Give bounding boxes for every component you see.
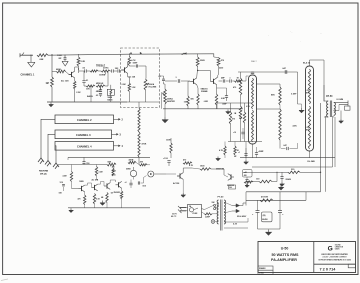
resistor R12	[95, 165, 103, 181]
svg-text:AC 128: AC 128	[61, 79, 69, 82]
resistor R27	[192, 166, 211, 171]
svg-text:BASS: BASS	[87, 95, 93, 98]
ground	[69, 208, 73, 212]
svg-text:100KB: 100KB	[99, 75, 106, 77]
wire	[159, 76, 165, 89]
svg-text:AC 1KB: AC 1KB	[92, 179, 99, 182]
svg-text:100K: 100K	[166, 140, 171, 142]
wire	[202, 208, 205, 211]
wire	[138, 102, 140, 165]
capacitor C12	[122, 181, 146, 187]
svg-text:150: 150	[184, 101, 187, 103]
drawn box	[258, 266, 273, 270]
wire	[228, 141, 262, 143]
svg-text:G: G	[328, 245, 333, 252]
wire	[128, 66, 130, 84]
wire	[217, 203, 219, 207]
svg-text:6.8K2: 6.8K2	[204, 101, 208, 103]
label 2N3055	[227, 185, 235, 187]
svg-text:10KB: 10KB	[79, 181, 84, 183]
svg-text:2N3053: 2N3053	[114, 192, 121, 194]
wire	[240, 203, 247, 206]
resistor R18	[124, 158, 136, 163]
wire	[197, 67, 198, 78]
wire	[128, 52, 142, 66]
pilot lamp DS1	[211, 220, 218, 224]
svg-text:WAL?: WAL?	[251, 60, 257, 63]
resistor R22	[184, 96, 190, 109]
potentiometer VR4 volume	[144, 79, 157, 90]
svg-text:U-50: U-50	[281, 247, 289, 251]
resistor R29	[229, 103, 235, 142]
ground	[278, 185, 283, 190]
resistor R31	[219, 142, 226, 159]
svg-text:680K: 680K	[56, 69, 61, 71]
svg-text:10MF: 10MF	[133, 63, 139, 65]
block CHANNEL 4	[55, 142, 114, 151]
svg-text:(M): (M)	[263, 215, 266, 217]
label grid2	[306, 127, 310, 132]
svg-text:470: 470	[112, 166, 115, 169]
wire	[257, 84, 281, 109]
wire	[217, 102, 252, 104]
svg-text:2.2M: 2.2M	[122, 84, 126, 86]
resistor R23	[204, 88, 226, 109]
svg-text:DRAWN: DRAWN	[259, 267, 266, 270]
wire	[310, 60, 325, 85]
logo G	[328, 244, 344, 252]
svg-text:+50MF: +50MF	[258, 151, 265, 153]
svg-text:+2: +2	[125, 182, 127, 184]
ground	[244, 160, 248, 164]
wire	[98, 182, 104, 187]
svg-text:MIDDLE: MIDDLE	[96, 83, 104, 85]
wire	[309, 63, 311, 66]
wire	[55, 146, 56, 163]
transformer T1 primary	[327, 101, 329, 117]
wire	[186, 208, 188, 211]
diode D2	[224, 209, 240, 213]
transistor Q8	[210, 78, 216, 85]
resistor R40	[234, 95, 242, 142]
svg-text:47KB: 47KB	[129, 158, 134, 161]
label PA AMPLIFIER	[271, 258, 297, 262]
resistor R43	[140, 161, 148, 166]
svg-text:680: 680	[191, 99, 194, 101]
svg-text:4756: 4756	[112, 174, 116, 177]
wire	[164, 104, 166, 117]
potentiometer VR3	[107, 89, 114, 101]
wire	[243, 76, 249, 81]
label 6BB	[216, 169, 224, 171]
resistor R6	[90, 70, 101, 72]
wire	[83, 71, 85, 80]
wire	[205, 205, 219, 209]
resistor R33	[271, 84, 281, 105]
svg-text:50KB: 50KB	[126, 168, 131, 170]
wire	[90, 86, 92, 92]
wire	[243, 172, 321, 173]
capacitor C6	[115, 68, 120, 73]
svg-text:4.6M: 4.6M	[63, 175, 67, 178]
resistor R35	[288, 169, 300, 174]
label 63	[233, 224, 238, 226]
capacitor C29	[59, 182, 65, 195]
resistor R1	[37, 54, 48, 61]
potentiometer VR5	[126, 167, 137, 177]
wire	[163, 108, 243, 110]
node 2	[114, 118, 124, 121]
wire heater	[252, 116, 335, 167]
ground	[100, 201, 105, 206]
svg-text:450: 450	[244, 174, 247, 177]
transformer T2 secondary	[224, 200, 226, 224]
svg-text:+1/10: +1/10	[163, 158, 168, 160]
label SE4010	[201, 87, 209, 93]
svg-text:68K: 68K	[108, 161, 112, 163]
ground	[280, 182, 284, 186]
svg-text:7 2 0 714: 7 2 0 714	[320, 267, 337, 271]
svg-text:10K: 10K	[86, 89, 90, 91]
svg-text:(10TK): (10TK)	[103, 67, 109, 69]
title block frame	[258, 242, 356, 273]
wire	[183, 168, 192, 173]
boxed label 80/450	[262, 212, 273, 222]
wire	[249, 172, 278, 182]
wire	[58, 164, 107, 166]
dashed enclosure	[121, 48, 160, 108]
wire	[91, 85, 111, 102]
wire	[258, 228, 281, 230]
plug P1	[171, 206, 186, 218]
label 50 WATTS RMS	[272, 253, 300, 257]
svg-text:20/450: 20/450	[286, 178, 292, 181]
revision box	[348, 264, 355, 268]
ground	[181, 193, 185, 197]
label U-50	[281, 247, 289, 251]
resistor R26	[183, 159, 194, 168]
wire	[51, 54, 52, 77]
svg-text:+1: +1	[238, 152, 240, 154]
wire heater 6.3V	[224, 218, 248, 228]
svg-text:MF: MF	[234, 156, 236, 158]
transistor Q3	[79, 181, 85, 192]
svg-text:.047: .047	[283, 144, 287, 147]
node CHANNEL 1	[21, 74, 36, 77]
transistor Q9	[166, 173, 183, 180]
svg-text:10: 10	[120, 196, 122, 198]
capacitor C28	[229, 77, 235, 82]
svg-text:4.7K: 4.7K	[219, 149, 224, 152]
label grid1	[306, 90, 310, 95]
resistor R41	[191, 94, 200, 109]
wire	[217, 66, 219, 78]
resistor R24	[235, 78, 243, 83]
transistor Q4	[92, 179, 99, 191]
svg-text:470: 470	[233, 86, 236, 89]
svg-text:1M3: 1M3	[115, 68, 119, 70]
wire	[252, 71, 254, 73]
wire feedback	[245, 142, 247, 158]
label address	[318, 259, 351, 261]
label PT-50	[218, 196, 225, 198]
svg-text:68K: 68K	[40, 59, 44, 61]
svg-text:4.7K: 4.7K	[189, 164, 194, 167]
label BASS	[87, 95, 93, 98]
svg-text:50 WATTS RMS: 50 WATTS RMS	[272, 253, 300, 257]
svg-text:470/1W: 470/1W	[261, 196, 268, 199]
capacitor C2	[82, 68, 90, 73]
wire	[309, 151, 311, 158]
label gulf	[323, 256, 348, 259]
wire	[110, 180, 115, 183]
capacitor C20	[251, 72, 254, 73]
svg-text:PA-AMPLIFIER: PA-AMPLIFIER	[271, 258, 297, 262]
ground	[339, 119, 343, 123]
svg-text:2.2M: 2.2M	[99, 172, 103, 174]
potentiometer VR2	[96, 83, 105, 93]
wire	[245, 192, 247, 206]
resistor R9	[128, 83, 136, 92]
node 4	[182, 53, 187, 56]
wire	[216, 103, 218, 109]
svg-text:MASTER: MASTER	[167, 100, 176, 103]
resistor R3	[56, 69, 66, 73]
svg-text:OT-50: OT-50	[326, 96, 333, 98]
node 3	[112, 133, 122, 136]
ground	[216, 157, 220, 161]
capacitor C16	[163, 158, 171, 166]
resistor R8	[128, 53, 136, 65]
wire	[48, 134, 55, 160]
wire	[297, 72, 299, 104]
diode D1	[224, 202, 240, 207]
resistor R19	[138, 108, 147, 157]
svg-text:6.3V: 6.3V	[233, 224, 238, 226]
ground	[62, 59, 68, 66]
jack J3	[45, 161, 51, 167]
label SD	[237, 215, 247, 218]
transistor Q10	[228, 174, 234, 181]
resistor R34	[279, 105, 297, 149]
svg-text:470K: 470K	[142, 143, 147, 146]
label 8ohm	[337, 99, 344, 101]
svg-text:5/10: 5/10	[143, 186, 147, 188]
jack J4	[53, 163, 59, 169]
svg-text:SOUND: SOUND	[335, 244, 342, 246]
resistor R36	[256, 179, 272, 183]
svg-text:1M: 1M	[46, 83, 49, 85]
small box	[229, 185, 236, 189]
capacitor C23	[243, 170, 253, 184]
wire	[127, 53, 214, 55]
resistor R5	[74, 78, 82, 102]
speaker jack J6	[334, 101, 350, 111]
jack J2	[38, 158, 44, 164]
potentiometer VR6 master	[162, 89, 176, 104]
capacitor C18	[255, 147, 264, 158]
resistor R2	[46, 77, 54, 87]
label TREBLE	[96, 66, 106, 68]
capacitor C24	[252, 200, 260, 229]
tube V1 phase splitter	[249, 75, 257, 144]
wire	[51, 87, 53, 102]
svg-text:80/450: 80/450	[262, 218, 267, 221]
ground	[162, 117, 168, 123]
checked box	[258, 270, 273, 274]
svg-text:CHANNEL 3: CHANNEL 3	[76, 133, 91, 137]
resistor R13	[63, 165, 73, 189]
wire	[324, 116, 334, 118]
wire	[211, 169, 228, 177]
svg-text:AC128: AC128	[173, 182, 180, 185]
svg-text:CHANNEL 4: CHANNEL 4	[77, 145, 92, 149]
resistor R25	[166, 138, 172, 158]
transistor Q6	[116, 181, 122, 188]
label UNICORD	[321, 253, 348, 256]
capacitor C7	[129, 63, 146, 68]
ground	[299, 108, 304, 113]
svg-text:CHANNEL 1: CHANNEL 1	[21, 74, 36, 77]
svg-text:8 OHM: 8 OHM	[337, 99, 344, 101]
resistor R14	[78, 192, 86, 208]
svg-text:75 FROST STREET, WESTBURY, N.Y: 75 FROST STREET, WESTBURY, N.Y. 11590	[318, 259, 351, 261]
wire	[48, 54, 127, 55]
ground	[245, 184, 249, 188]
wire	[323, 85, 325, 102]
wire	[236, 186, 247, 188]
transformer T1 core	[330, 101, 331, 118]
fuse box F1	[188, 205, 202, 218]
wire	[145, 90, 147, 102]
wire	[250, 141, 252, 144]
svg-text:1/2W: 1/2W	[112, 171, 116, 173]
capacitor C22	[280, 172, 291, 182]
capacitor C9	[82, 157, 89, 164]
wire	[197, 70, 210, 82]
svg-text:6.8K: 6.8K	[221, 98, 226, 100]
wire	[182, 179, 184, 193]
ground	[226, 110, 231, 114]
wire	[324, 85, 328, 101]
block CHANNEL 3	[55, 130, 112, 139]
wire	[145, 66, 148, 79]
transistor Q7	[190, 78, 197, 85]
svg-text:PT-50: PT-50	[218, 196, 225, 198]
capacitor C13	[165, 77, 190, 83]
wire	[52, 72, 69, 75]
svg-text:CHANNEL 2: CHANNEL 2	[77, 118, 92, 122]
capacitor C19	[282, 67, 287, 74]
svg-text:+10: +10	[233, 132, 236, 134]
label MF	[234, 156, 236, 158]
resistor R15	[93, 191, 100, 208]
wire	[72, 188, 79, 190]
ground	[28, 55, 35, 67]
resistor R38 surge	[202, 212, 219, 219]
resistor R10 label	[122, 84, 126, 86]
capacitor C25	[278, 192, 284, 229]
resistor R7	[84, 85, 95, 91]
ground	[49, 103, 53, 107]
svg-text:` -: ` -	[290, 31, 293, 34]
svg-text:UNICORD INCORPORATED: UNICORD INCORPORATED	[321, 253, 348, 256]
wire	[75, 67, 79, 71]
ground	[266, 230, 272, 236]
svg-text:2.2K: 2.2K	[81, 61, 86, 63]
wire	[78, 68, 84, 73]
wire	[117, 69, 121, 72]
label REVERB	[39, 171, 49, 176]
capacitor C15	[217, 74, 229, 83]
transistor Q1	[61, 71, 75, 82]
wire	[127, 92, 159, 103]
wire	[47, 101, 127, 103]
svg-text:4.6K: 4.6K	[293, 125, 298, 128]
svg-text:SW: SW	[212, 202, 215, 204]
transistor Q5	[104, 183, 113, 195]
label watt	[251, 60, 257, 63]
capacitor C4	[82, 80, 89, 86]
capacitor C26	[233, 128, 245, 139]
transformer T2 core	[221, 200, 222, 231]
wire	[252, 144, 254, 158]
label 2N3053	[114, 192, 121, 194]
svg-text:2200: 2200	[219, 68, 223, 70]
svg-text:REVERB: REVERB	[39, 171, 49, 173]
transformer T2 primary	[217, 200, 219, 224]
wire	[85, 183, 92, 188]
wire	[144, 176, 147, 184]
svg-text:EL-34B: EL-34B	[308, 160, 316, 163]
wire	[238, 71, 298, 73]
wire	[325, 116, 327, 192]
wire	[105, 71, 108, 86]
resistor R39	[233, 72, 242, 95]
svg-text:470: 470	[183, 159, 186, 162]
resistor R42	[120, 188, 123, 208]
capacitor C5	[96, 86, 103, 97]
svg-text:DR.(4): DR.(4)	[40, 172, 47, 175]
wire	[161, 93, 163, 109]
wire	[68, 207, 150, 209]
svg-text:68: 68	[111, 193, 113, 195]
label EL434	[303, 62, 311, 65]
transistor Q2	[121, 67, 136, 79]
wire	[216, 85, 218, 88]
wire	[134, 163, 151, 180]
svg-text:AC 128: AC 128	[128, 75, 136, 78]
svg-text:1/50: 1/50	[86, 163, 90, 165]
svg-text:470: 470	[78, 198, 81, 201]
label colour	[291, 94, 297, 96]
wire	[246, 192, 306, 201]
smudge	[1, 31, 322, 281]
capacitor C11	[125, 180, 133, 189]
svg-text:.02: .02	[96, 91, 99, 93]
resistor R11	[107, 161, 116, 166]
wire	[41, 119, 55, 158]
label OT-50	[326, 96, 333, 98]
label EL34B	[308, 160, 316, 163]
svg-text:1.5K: 1.5K	[132, 87, 137, 89]
wire	[246, 191, 321, 193]
capacitor C8	[146, 76, 166, 81]
capacitor C1	[57, 55, 66, 60]
wire	[240, 157, 335, 159]
wire	[188, 81, 198, 96]
jack J5	[148, 171, 166, 177]
